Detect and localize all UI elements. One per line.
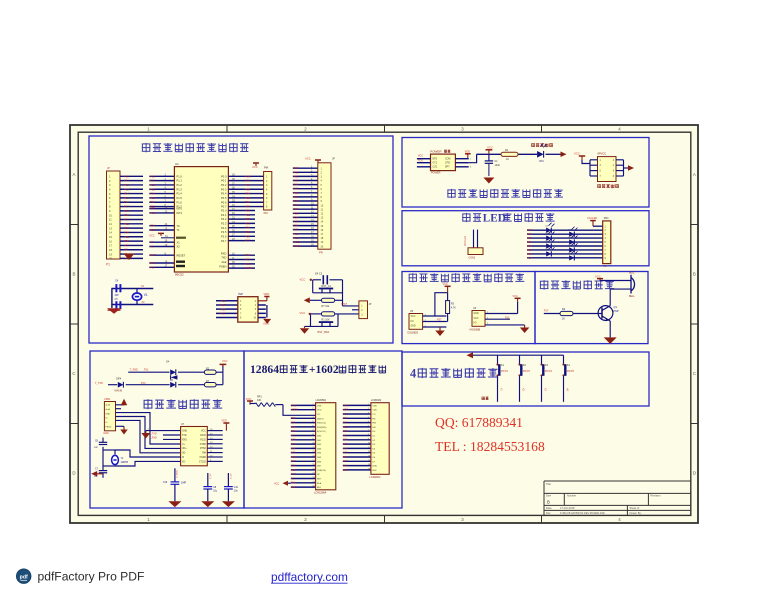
connector USB [103, 398, 115, 435]
VCC of IR receiver [513, 295, 521, 302]
switch K4 [562, 355, 574, 402]
capacitor C3 reset [315, 273, 327, 285]
ic 8P VCC expansion header [590, 152, 628, 189]
svg-text:P17: P17 [221, 311, 226, 315]
svg-text:C: C [72, 371, 75, 376]
svg-text:VCC: VCC [487, 145, 493, 149]
svg-text:P03: P03 [527, 240, 532, 244]
svg-text:P0.5: P0.5 [221, 196, 227, 200]
svg-text:I/O: I/O [474, 323, 477, 325]
svg-text:T_RXD: T_RXD [130, 369, 138, 372]
ground of C10 [168, 501, 181, 507]
border zone numbers and letters [72, 127, 696, 523]
pdfFactory logo [16, 569, 31, 584]
svg-text:VCC: VCC [411, 316, 416, 318]
resistor RP1 10K [250, 396, 275, 407]
svg-text:P1: P1 [106, 263, 110, 267]
svg-text:Drawn By:: Drawn By: [630, 511, 642, 515]
wire bus of LCM1602 [343, 404, 371, 472]
svg-text:P01: P01 [291, 434, 296, 437]
border zone ticks [70, 125, 698, 523]
wires from USB to U7 [116, 409, 181, 453]
svg-text:P2.5: P2.5 [221, 230, 227, 234]
svg-text:VDD: VDD [222, 419, 227, 422]
svg-text:PM: PM [264, 211, 268, 215]
VCC into U1 pin 31 (EA) [149, 233, 174, 238]
capacitor C11 10uF [224, 473, 239, 501]
svg-text:X2: X2 [177, 245, 181, 249]
svg-text:BLK: BLK [291, 486, 296, 489]
svg-text:T_TXD: T_TXD [95, 382, 103, 385]
svg-text:VCC: VCC [222, 359, 228, 363]
svg-text:BLA: BLA [291, 482, 296, 485]
svg-text:1K: 1K [506, 158, 509, 161]
svg-text:P0.3: P0.3 [221, 187, 227, 191]
LED D6 [569, 242, 578, 252]
wires from RP1 [275, 405, 315, 416]
svg-text:P33: P33 [291, 422, 296, 425]
svg-text:CO1: CO1 [433, 167, 438, 169]
svg-text:V1: V1 [144, 293, 148, 297]
wire bus of LCM12864 [291, 404, 316, 489]
svg-text:CT232: CT232 [199, 461, 207, 463]
svg-text:P03: P03 [291, 443, 296, 446]
diode D4 pair IN4148 [166, 361, 177, 380]
svg-text:P1.4: P1.4 [177, 192, 183, 196]
wire bus of LED rows [527, 228, 603, 260]
crystal circuit wires [111, 289, 153, 309]
net VCC of RP1 [246, 397, 253, 404]
crystal circuit of U7 [103, 447, 181, 471]
wire row2 comm [108, 372, 223, 385]
svg-text:INT1: INT1 [177, 211, 183, 215]
wires of IR receiver [485, 302, 525, 325]
svg-text:GND: GND [411, 326, 416, 328]
VCC on power rail [486, 145, 493, 154]
svg-text:LCM2864: LCM2864 [316, 399, 327, 402]
ground arrow of USB [116, 426, 128, 434]
resistor R7 [204, 380, 216, 387]
module title: MCU and reset circuit [142, 143, 249, 152]
svg-text:VO: VO [317, 414, 320, 416]
svg-text:VCCLED: VCCLED [587, 217, 597, 220]
svg-text:VCC: VCC [274, 483, 279, 486]
svg-text:P35: P35 [150, 228, 155, 232]
ic U1 89C52 [174, 162, 228, 276]
ground of C1 [483, 178, 494, 184]
svg-text:GND: GND [474, 313, 479, 315]
buzzer BELL [629, 273, 635, 299]
svg-text:P0.4: P0.4 [221, 192, 227, 196]
svg-text:VDD: VDD [343, 409, 348, 412]
connector LCM1602 (16 pin) [370, 399, 390, 479]
svg-text:COM: COM [445, 159, 450, 161]
VCC arrow of USB [116, 399, 128, 406]
svg-text:BLK: BLK [343, 469, 348, 472]
svg-text:RST_SW1: RST_SW1 [318, 331, 330, 334]
svg-text:P06: P06 [343, 456, 348, 459]
module box: 4 keys [402, 352, 649, 406]
svg-text:EN: EN [372, 427, 375, 429]
svg-text:I/O: I/O [411, 321, 414, 323]
diode D5 IN4148 [115, 379, 124, 393]
svg-text:JP: JP [369, 303, 372, 306]
svg-text:P00: P00 [343, 430, 348, 433]
svg-text:P01: P01 [527, 232, 532, 236]
svg-text:P04: P04 [343, 447, 348, 450]
svg-text:104P: 104P [181, 483, 187, 485]
LED D2 [569, 227, 578, 237]
svg-text:P07: P07 [343, 460, 348, 463]
svg-text:INT0: INT0 [177, 207, 183, 211]
svg-text:D: D [693, 471, 696, 476]
capacitor C8 30P [94, 438, 107, 450]
svg-text:P33: P33 [150, 211, 155, 215]
svg-text:NC: NC [317, 474, 321, 476]
svg-text:P37: P37 [150, 265, 155, 269]
svg-text:pdffactory.com: pdffactory.com [271, 570, 348, 584]
svg-text:LCM1602: LCM1602 [370, 476, 381, 479]
svg-text:P03: P03 [343, 443, 348, 446]
svg-text:P2.4: P2.4 [221, 226, 227, 230]
svg-text:GND: GND [343, 404, 349, 407]
svg-text:P31: P31 [144, 369, 149, 372]
svg-text:P2.7: P2.7 [221, 239, 227, 243]
jumper CON2 for LED power [464, 230, 483, 260]
svg-text:XO: XO [182, 461, 186, 463]
svg-text:P17: P17 [544, 308, 549, 312]
LED D8 [569, 250, 578, 260]
svg-text:C_GND: C_GND [177, 470, 179, 478]
svg-text:DP2: DP2 [433, 159, 438, 161]
svg-text:P1.5: P1.5 [177, 196, 183, 200]
capacitor C10 104P [163, 468, 187, 501]
svg-text:P34: P34 [291, 426, 296, 429]
svg-text:P05: P05 [343, 452, 348, 455]
svg-text:P36: P36 [291, 469, 296, 472]
svg-text:Number: Number [567, 494, 576, 498]
key module small note [482, 397, 489, 400]
module title: temp sensor / IR receiver [409, 273, 525, 282]
svg-text:30P: 30P [94, 447, 98, 449]
LED D4 [569, 235, 578, 245]
svg-text:DPT: DPT [445, 167, 450, 169]
svg-text:GND: GND [103, 432, 109, 435]
svg-text:B: B [547, 499, 550, 504]
svg-text:RST: RST [150, 253, 156, 257]
svg-text:VO: VO [372, 414, 375, 416]
svg-text:VDD5: VDD5 [291, 409, 298, 412]
svg-text:30P: 30P [94, 476, 98, 478]
svg-text:LCM12864: LCM12864 [314, 492, 327, 495]
svg-text:4: 4 [410, 367, 416, 381]
capacitor C2 30P [115, 279, 121, 297]
wires out of power jack [455, 154, 476, 168]
svg-text:P05: P05 [291, 452, 296, 455]
svg-text:P32: P32 [505, 316, 510, 319]
connector J2 (20 pin) [305, 156, 335, 254]
wire bus P1 to labels [120, 174, 143, 260]
svg-text:GND: GND [293, 244, 299, 248]
svg-text:VDD: VDD [264, 292, 270, 296]
module title: buzzer module [540, 280, 614, 289]
svg-text:VCC: VCC [252, 165, 258, 169]
svg-text:P22: P22 [343, 426, 348, 429]
svg-text:P32: P32 [291, 417, 296, 420]
ic ISP download header [238, 292, 266, 322]
svg-text:ISP: ISP [238, 292, 243, 296]
svg-text:POWER: POWER [431, 172, 441, 175]
svg-text:DS18B20: DS18B20 [408, 332, 419, 335]
svg-text:C10: C10 [163, 482, 168, 484]
svg-text:P00: P00 [291, 430, 296, 433]
svg-text:POWER: POWER [430, 149, 442, 153]
reset circuit wires [305, 280, 359, 327]
svg-text:P02: P02 [343, 439, 348, 442]
svg-text:10uF: 10uF [495, 164, 501, 167]
wires of buzzer [600, 281, 631, 306]
svg-text:BLA: BLA [317, 482, 322, 485]
switch K1 [496, 355, 508, 402]
sheet outer border frame [70, 125, 698, 523]
svg-text:GND: GND [105, 413, 110, 415]
connector P1 (20 pin) [106, 166, 120, 267]
ground of DS18B20 [435, 327, 445, 336]
svg-text:X1: X1 [177, 240, 181, 244]
svg-text:C_5V: C_5V [210, 473, 212, 479]
switch K3 [540, 355, 552, 402]
ground at U7 pin1 [141, 431, 150, 439]
svg-text:DSR#: DSR# [200, 457, 207, 459]
svg-text:VCCLED: VCCLED [464, 236, 467, 246]
svg-text:P0.1: P0.1 [221, 179, 227, 183]
wires right of U7 [207, 419, 229, 462]
module box: comm and download [90, 351, 244, 508]
svg-text:F:\MCU51\AT89C52 DEV BOARD.Ddb: F:\MCU51\AT89C52 DEV BOARD.Ddb [560, 511, 605, 515]
svg-text:VCC: VCC [305, 156, 311, 160]
svg-text:BELL: BELL [629, 296, 635, 298]
svg-text:P06: P06 [527, 252, 532, 256]
svg-text:PR1: PR1 [604, 217, 609, 220]
svg-text:VCC: VCC [418, 155, 423, 158]
svg-text:VCC: VCC [574, 152, 580, 156]
svg-text:DTR#: DTR# [200, 444, 207, 446]
svg-text:A: A [73, 172, 76, 177]
schematic sheet background [70, 125, 698, 523]
svg-text:VCC: VCC [201, 431, 206, 433]
module box: LCD interfaces [244, 351, 402, 508]
net VCC of buzzer [595, 275, 603, 281]
svg-text:UD-: UD- [182, 453, 186, 455]
svg-text:VDD: VDD [465, 149, 471, 153]
svg-text:GTB: GTB [445, 163, 450, 165]
svg-text:P0.0: P0.0 [221, 174, 227, 178]
svg-text:C11: C11 [234, 487, 239, 489]
net labels X1 X2 crystal [141, 285, 145, 304]
connector power jack [430, 149, 455, 174]
svg-text:RXD: RXD [182, 439, 187, 441]
svg-text:QQ: 617889341: QQ: 617889341 [435, 415, 523, 430]
svg-text:P2.0: P2.0 [221, 209, 227, 213]
wire bus into U1 left pins [149, 174, 174, 270]
net labels T_TXD P30 [95, 382, 146, 385]
svg-text:X2: X2 [150, 245, 154, 249]
svg-text:PW.P5: PW.P5 [567, 371, 575, 373]
svg-text:T_RXD: T_RXD [149, 437, 157, 440]
svg-text:dcd5: dcd5 [105, 405, 111, 407]
svg-text:C: C [693, 371, 696, 376]
module box: power input and expansion [402, 138, 649, 208]
svg-text:P27: P27 [245, 239, 250, 243]
svg-text:U1: U1 [175, 162, 179, 166]
svg-text:VO: VO [343, 413, 347, 416]
svg-text:PBUS: PBUS [105, 426, 111, 428]
svg-text:RTS#: RTS# [200, 448, 207, 450]
svg-text:NC: NC [291, 477, 295, 480]
svg-text:R1 10K: R1 10K [321, 319, 330, 322]
svg-text:P04: P04 [527, 244, 532, 248]
svg-text:PSEN: PSEN [245, 266, 253, 270]
svg-text:P0.7: P0.7 [221, 205, 227, 209]
VCC arrow of LCM12864 backlight [274, 481, 291, 486]
wires into power jack [417, 155, 431, 167]
svg-text:P37: P37 [291, 473, 296, 476]
capacitor C9 10uF [203, 473, 217, 501]
svg-text:BLA: BLA [372, 465, 377, 468]
svg-text:30P: 30P [115, 294, 120, 297]
svg-text:UD+: UD+ [182, 448, 187, 450]
svg-text:E4 C3: E4 C3 [315, 273, 323, 276]
module title: comm and download [144, 399, 223, 409]
switch RST_SW1 [318, 322, 334, 334]
svg-text:B: B [693, 272, 696, 277]
svg-text:A: A [693, 172, 696, 177]
switch RST key S1 [319, 285, 333, 293]
svg-text:C_3V: C_3V [230, 473, 232, 479]
svg-text:P05: P05 [527, 248, 532, 252]
svg-text:P07: P07 [291, 460, 296, 463]
svg-text:R232: R232 [200, 439, 206, 441]
svg-text:VDD: VDD [372, 410, 377, 412]
base wire of Q1 [544, 313, 602, 315]
svg-text:VD1: VD1 [539, 160, 544, 163]
diode D6 IN4148 [170, 380, 176, 388]
svg-text:P20: P20 [343, 417, 348, 420]
svg-text:PSEN: PSEN [219, 264, 226, 268]
svg-text:89C52: 89C52 [175, 272, 184, 276]
wire bus U1 serial pins labels [228, 253, 255, 271]
svg-text:Revision: Revision [651, 494, 662, 498]
net label RST [342, 302, 348, 306]
ground of C9 [201, 501, 214, 507]
svg-text:P00: P00 [527, 228, 532, 232]
svg-text:1K: 1K [562, 318, 565, 321]
connector J3 (3 pin) [359, 301, 372, 319]
svg-text:GND: GND [291, 404, 297, 407]
svg-text:TEL : 18284553168: TEL : 18284553168 [435, 439, 545, 454]
VDD of ISP [258, 292, 270, 318]
svg-text:VSS: VSS [317, 405, 322, 407]
svg-text:VDD: VDD [317, 410, 322, 412]
connector LCM12864 (20 pin) [314, 399, 336, 494]
svg-text:P02: P02 [291, 439, 296, 442]
arrow left of crystal [91, 471, 103, 477]
net labels T_RXD P31 [130, 369, 149, 372]
svg-text:P07: P07 [527, 256, 532, 260]
svg-text:GT2: GT2 [433, 163, 438, 165]
svg-text:17-Oct-2018: 17-Oct-2018 [560, 506, 575, 510]
resistor R4 1K [560, 308, 573, 321]
svg-text:R/W(SID): R/W(SID) [317, 427, 327, 429]
VCC of DS18B20 [443, 283, 451, 293]
module title: power input and expansion [447, 189, 563, 198]
resistor R7 10k [321, 298, 334, 308]
ic IR receiver HS0038 [470, 307, 486, 332]
svg-text:RS: RS [372, 418, 376, 420]
arrow of expansion header [628, 165, 634, 171]
key rail wire [469, 354, 563, 356]
arrow of key rail [467, 352, 474, 358]
svg-text:XI: XI [182, 457, 185, 459]
svg-text:P2.3: P2.3 [221, 222, 227, 226]
svg-text:LED: LED [483, 213, 506, 225]
svg-text:P1.6: P1.6 [177, 200, 183, 204]
svg-text:P2.1: P2.1 [221, 213, 227, 217]
svg-text:P02: P02 [527, 236, 532, 240]
svg-text:P1.0: P1.0 [177, 174, 183, 178]
resistor R2 [204, 368, 216, 375]
svg-text:VCC: VCC [300, 311, 306, 315]
svg-text:P2.2: P2.2 [221, 217, 227, 221]
svg-text:PW.P4: PW.P4 [545, 371, 553, 373]
wires of DS18B20 [423, 293, 448, 328]
wires left of U7 [146, 429, 180, 440]
svg-text:dcd4: dcd4 [105, 409, 111, 411]
svg-text:P04: P04 [291, 447, 296, 450]
ic U7 CH340/MAX232 [181, 423, 208, 466]
text pdfFactory Pro PDF [38, 569, 145, 583]
svg-text:C4: C4 [115, 279, 119, 283]
capacitor C5 30P [115, 298, 121, 309]
svg-text:File:: File: [546, 511, 551, 515]
crystal V1 [132, 293, 148, 300]
svg-text:P06: P06 [291, 456, 296, 459]
svg-text:VCC: VCC [300, 277, 306, 281]
LED power indicator D1 [531, 143, 553, 163]
svg-text:VCC: VCC [149, 234, 155, 238]
svg-text:E(SCLK): E(SCLK) [317, 431, 326, 433]
ic DS18B20 [408, 310, 423, 335]
VCC for expansion header [574, 152, 590, 164]
svg-text:RS(CS1): RS(CS1) [317, 423, 326, 425]
svg-text:RESET: RESET [177, 253, 186, 257]
svg-text:JP: JP [107, 166, 110, 170]
svg-text:CON2: CON2 [469, 257, 476, 260]
title block [544, 481, 691, 515]
resistor R1 [501, 149, 518, 161]
svg-text:BLK: BLK [317, 487, 322, 489]
VCCLED hook wire [587, 217, 603, 226]
svg-text:+1602: +1602 [309, 363, 339, 376]
svg-text:Sheet of: Sheet of [630, 506, 640, 510]
svg-text:RST_C1: RST_C1 [321, 285, 331, 288]
LED D5 [546, 239, 555, 249]
svg-text:GND: GND [182, 431, 187, 433]
text QQ number [435, 415, 523, 430]
VCC of reset bottom [300, 311, 311, 315]
svg-text:RXD: RXD [221, 251, 227, 255]
svg-text:P1.1: P1.1 [177, 179, 183, 183]
